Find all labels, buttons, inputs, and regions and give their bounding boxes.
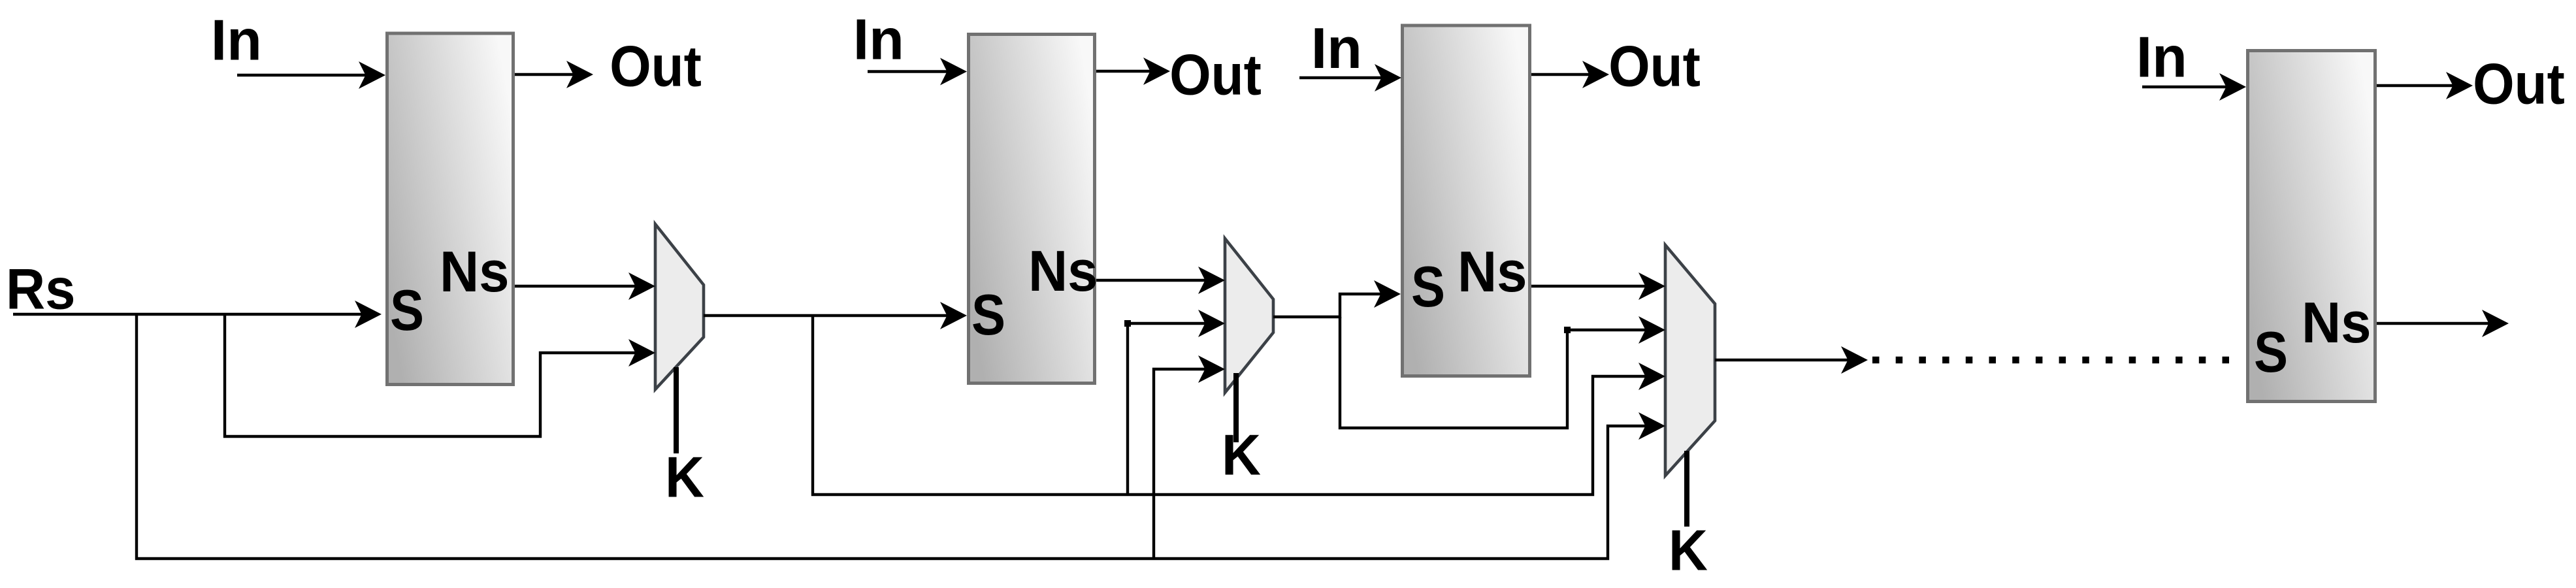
wire In4 arrow into U4 bbox=[2142, 86, 2227, 88]
wire Ns1 from U1 to mux M1 input 1 bbox=[515, 285, 636, 287]
svg-text:Ns: Ns bbox=[1458, 239, 1527, 304]
wire dotted continuation to U4 S input bbox=[1872, 357, 2245, 364]
wire Out2 arrow from U2 bbox=[1096, 70, 1151, 73]
wire Rs into U1 S input bbox=[13, 313, 363, 316]
wire Rs feedback: down at x209, bottom bus, up into mux M3 input 4 bbox=[137, 314, 1646, 559]
svg-text:In: In bbox=[211, 8, 262, 73]
wire Out1 arrow from U1 bbox=[515, 73, 574, 76]
block U4 (stage n state register) bbox=[2248, 51, 2375, 402]
mux M3 bbox=[1665, 245, 1715, 476]
wire Ns3 from U3 to mux M3 input 1 bbox=[1531, 285, 1646, 287]
block U3 (stage 3 state register) bbox=[1403, 25, 1530, 376]
wire Out4 arrow from U4 bbox=[2377, 84, 2454, 87]
svg-text:Out: Out bbox=[2473, 52, 2565, 116]
wire K2 select line bbox=[1233, 373, 1239, 442]
svg-text:S: S bbox=[390, 278, 424, 342]
wire mux M1 output branch: down at x1244, mid bus, up into mux M3 input 3 bbox=[813, 316, 1646, 495]
svg-text:K: K bbox=[665, 445, 704, 510]
svg-text:Ns: Ns bbox=[2302, 290, 2372, 355]
wire Rs branch: down at x344, right, up into mux M1 input 2 bbox=[225, 314, 636, 436]
svg-text:Ns: Ns bbox=[440, 239, 510, 304]
wire In1 arrow into U1 bbox=[237, 74, 367, 76]
wire mux M2 output to U3 S input bbox=[1273, 294, 1382, 317]
wire Ns4 output arrow from U4 bbox=[2377, 322, 2489, 325]
mux M2 bbox=[1225, 238, 1273, 393]
wire mux M1 output to U2 S input bbox=[704, 314, 948, 317]
svg-text:S: S bbox=[2254, 319, 2288, 384]
svg-text:In: In bbox=[2136, 25, 2187, 90]
wire branch from mid bus up at x1726 into mux M2 input 2 bbox=[1128, 323, 1206, 495]
block U2 (stage 2 state register) bbox=[969, 35, 1095, 384]
block U1 (stage 1 state register) bbox=[387, 33, 514, 385]
svg-text:Out: Out bbox=[1608, 34, 1701, 99]
wire Out3 arrow from U3 bbox=[1531, 73, 1590, 76]
svg-text:In: In bbox=[1311, 16, 1362, 80]
svg-text:S: S bbox=[1411, 254, 1445, 319]
mux M1 bbox=[655, 224, 704, 389]
svg-text:In: In bbox=[853, 7, 904, 72]
wire mux M2 output branch: down at x2051, right, up into mux M3 input 2 bbox=[1340, 317, 1646, 428]
wire In2 arrow into U2 bbox=[868, 70, 949, 73]
junction dot at mux M2 input 2 corner bbox=[1124, 320, 1131, 327]
svg-text:Out: Out bbox=[610, 34, 702, 99]
wire K1 select line bbox=[674, 367, 679, 453]
junction dot at mux M3 input 2 corner bbox=[1564, 327, 1571, 333]
wire mux M3 output arrow bbox=[1715, 359, 1849, 361]
wire from bottom bus up at x1766 into mux M2 input 3 bbox=[1154, 369, 1206, 559]
wire Ns2 from U2 to mux M2 input 1 bbox=[1096, 279, 1206, 282]
svg-text:Out: Out bbox=[1169, 42, 1262, 107]
svg-text:S: S bbox=[971, 282, 1005, 347]
svg-text:K: K bbox=[1222, 423, 1261, 487]
svg-text:Rs: Rs bbox=[6, 257, 76, 321]
wire K3 select line bbox=[1684, 451, 1689, 527]
svg-text:Ns: Ns bbox=[1028, 238, 1098, 303]
wire In3 arrow into U3 bbox=[1299, 76, 1382, 79]
svg-text:K: K bbox=[1669, 518, 1708, 583]
